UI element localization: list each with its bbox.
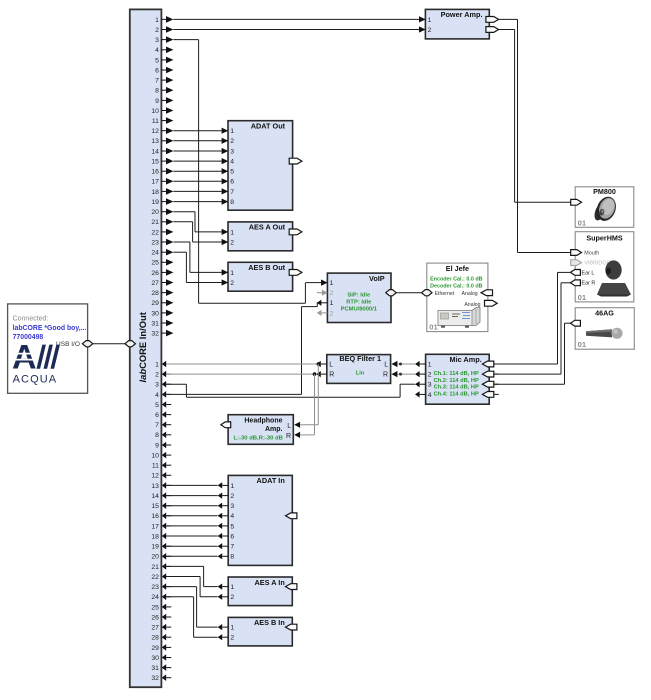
Mic Amp input connector 1 bbox=[482, 361, 498, 367]
wire ADAT In 2 to labCORE in14 bbox=[166, 495, 217, 497]
svg-text:31: 31 bbox=[151, 665, 159, 672]
svg-text:22: 22 bbox=[151, 574, 159, 581]
labCORE input port 29 bbox=[151, 644, 171, 652]
labCORE vertical label bbox=[137, 312, 148, 382]
device box El Jefe bbox=[427, 263, 488, 332]
svg-text:29: 29 bbox=[151, 300, 159, 307]
svg-text:01: 01 bbox=[429, 323, 438, 332]
svg-text:11: 11 bbox=[152, 463, 159, 470]
svg-text:3: 3 bbox=[155, 37, 159, 44]
svg-text:14: 14 bbox=[151, 148, 159, 155]
ADAT Out output connector bbox=[289, 158, 302, 164]
svg-text:SIP: Idle: SIP: Idle bbox=[347, 292, 371, 298]
El Jefe Analog input port bbox=[462, 290, 493, 297]
labCORE output port 7 bbox=[155, 77, 173, 85]
junction BEQ L tap bbox=[317, 362, 321, 366]
BEQ Filter 1 title bbox=[339, 354, 381, 363]
AES B In input connector bbox=[286, 624, 297, 630]
block BEQ Filter 1 bbox=[327, 355, 391, 384]
svg-text:Ch.2: 114 dB, HP: Ch.2: 114 dB, HP bbox=[434, 378, 479, 384]
BEQ output port R bbox=[316, 371, 334, 379]
svg-text:RTP: Idle: RTP: Idle bbox=[346, 299, 372, 305]
svg-text:L: L bbox=[287, 423, 291, 430]
wire VoIP out1 to labCORE in4 bbox=[166, 303, 317, 395]
labCORE output port 25 bbox=[151, 259, 173, 267]
svg-text:46AG: 46AG bbox=[595, 309, 614, 318]
SuperHMS unit number 01 bbox=[578, 293, 587, 302]
svg-text:6: 6 bbox=[230, 533, 234, 540]
labCORE input port 15 bbox=[151, 502, 171, 510]
svg-text:01: 01 bbox=[578, 293, 587, 302]
svg-text:VoIP: VoIP bbox=[369, 274, 385, 283]
svg-text:25: 25 bbox=[151, 604, 159, 611]
El Jefe device image bbox=[438, 308, 480, 328]
device box SuperHMS bbox=[575, 232, 634, 302]
wire labCORE out19 to ADAT Out 8 bbox=[173, 201, 221, 203]
labCORE input port 24 bbox=[151, 594, 171, 602]
wire labCORE out2 to Power Amp in2 bbox=[173, 29, 419, 31]
Headphone Amp output connector bbox=[221, 422, 231, 428]
wire labCORE out14 to ADAT Out 3 bbox=[173, 150, 221, 152]
block VoIP bbox=[327, 273, 391, 322]
svg-text:19: 19 bbox=[151, 199, 159, 206]
Mic Amp channel text 4 bbox=[434, 391, 479, 397]
block AES B In bbox=[228, 617, 292, 646]
labCORE input port 20 bbox=[151, 553, 171, 561]
svg-text:1: 1 bbox=[230, 128, 234, 135]
Mic Amp output port 3 bbox=[415, 381, 432, 389]
svg-text:1: 1 bbox=[230, 625, 234, 632]
wire labCORE out20 to AES A Out 1 bbox=[173, 212, 221, 232]
svg-text:El Jefe: El Jefe bbox=[446, 264, 469, 273]
svg-text:17: 17 bbox=[151, 179, 159, 186]
label Connected: bbox=[13, 316, 49, 323]
wire AES B In 2 to labCORE in24 bbox=[166, 597, 217, 637]
svg-text:labCORE *Good boy,...: labCORE *Good boy,... bbox=[13, 325, 87, 332]
svg-text:AES B In: AES B In bbox=[254, 618, 285, 627]
ADAT In output port 3 bbox=[218, 503, 235, 511]
ADAT In output port 4 bbox=[218, 513, 235, 521]
labCORE USB I/O connector bbox=[125, 341, 135, 347]
svg-text:7: 7 bbox=[155, 78, 159, 85]
AES A In title bbox=[255, 578, 285, 587]
labCORE input port 32 bbox=[151, 674, 171, 682]
svg-text:22: 22 bbox=[151, 229, 159, 236]
SuperHMS title bbox=[586, 233, 623, 242]
wire Power Amp out1 to SuperHMS Mouth bbox=[499, 19, 571, 252]
svg-text:PM800: PM800 bbox=[593, 187, 616, 196]
svg-text:Ch.3: 114 dB, HP: Ch.3: 114 dB, HP bbox=[434, 385, 479, 391]
svg-text:2: 2 bbox=[428, 372, 432, 379]
wire ADAT In 6 to labCORE in18 bbox=[166, 535, 217, 537]
El Jefe unit number 01 bbox=[429, 323, 438, 332]
svg-text:Ethernet: Ethernet bbox=[435, 291, 455, 297]
svg-text:2: 2 bbox=[230, 635, 234, 642]
AES B In title bbox=[254, 618, 285, 627]
VoIP input port 2 disabled bbox=[317, 290, 334, 298]
svg-text:6: 6 bbox=[155, 67, 159, 74]
labCORE input port 16 bbox=[151, 513, 171, 521]
labCORE input port 12 bbox=[151, 472, 171, 480]
Headphone Amp input R bbox=[286, 432, 300, 440]
labCORE output port 21 bbox=[151, 219, 173, 227]
label 77000498 bbox=[13, 334, 44, 341]
Power Amp output port 1 bbox=[486, 17, 499, 23]
svg-text:Lin: Lin bbox=[356, 370, 365, 376]
wire labCORE out18 to ADAT Out 7 bbox=[173, 190, 221, 192]
svg-text:2: 2 bbox=[230, 280, 234, 287]
svg-text:16: 16 bbox=[151, 169, 159, 176]
VoIP title bbox=[369, 274, 385, 283]
wire labCORE out21 to AES A Out 2 bbox=[173, 222, 221, 242]
svg-text:28: 28 bbox=[151, 635, 159, 642]
AES B Out output connector bbox=[289, 270, 302, 276]
ADAT In output port 2 bbox=[218, 493, 235, 501]
labCORE input port 22 bbox=[151, 573, 171, 581]
ADAT Out input port 7 bbox=[222, 188, 235, 196]
labCORE input port 25 bbox=[151, 604, 171, 612]
svg-text:ADAT Out: ADAT Out bbox=[251, 122, 286, 131]
svg-text:2: 2 bbox=[428, 27, 432, 34]
VoIP status text RTP bbox=[346, 299, 372, 305]
svg-text:16: 16 bbox=[151, 513, 159, 520]
ADAT Out input port 4 bbox=[222, 158, 235, 166]
labCORE output port 22 bbox=[151, 229, 173, 237]
svg-text:2: 2 bbox=[155, 27, 159, 34]
amplifier block Power Amp bbox=[425, 9, 489, 39]
wire ADAT In 3 to labCORE in15 bbox=[166, 505, 217, 507]
labCORE output port 11 bbox=[152, 117, 174, 125]
svg-text:01: 01 bbox=[578, 218, 587, 227]
labCORE input port 17 bbox=[151, 523, 171, 531]
El Jefe Ethernet connector bbox=[422, 290, 455, 297]
ADAT Out input port 8 bbox=[222, 199, 235, 207]
svg-text:14: 14 bbox=[151, 493, 159, 500]
ADAT Out input port 6 bbox=[222, 178, 235, 186]
46AG unit number 01 bbox=[578, 340, 587, 349]
svg-text:20: 20 bbox=[151, 554, 159, 561]
ADAT In output port 1 bbox=[218, 482, 235, 490]
El Jefe encoder cal text bbox=[430, 276, 483, 282]
labCORE output port 14 bbox=[151, 148, 173, 156]
svg-text:Decoder Cal.: 0.0 dB: Decoder Cal.: 0.0 dB bbox=[430, 283, 483, 289]
VoIP Ethernet connector bbox=[386, 290, 396, 296]
labCORE output port 4 bbox=[155, 47, 173, 55]
wire labCORE out12 to ADAT Out 1 bbox=[173, 130, 221, 132]
Headphone Amp gain text bbox=[233, 435, 282, 441]
labCORE input port 6 bbox=[155, 411, 171, 419]
svg-text:ACQUA: ACQUA bbox=[13, 373, 58, 385]
wire AES A In 2 to labCORE in22 bbox=[166, 577, 217, 597]
svg-text:10: 10 bbox=[151, 108, 159, 115]
Mic Amp output port 1 bbox=[415, 361, 432, 369]
Mic Amp input connector 3 bbox=[482, 381, 498, 387]
labCORE input port 1 bbox=[155, 361, 171, 369]
svg-text:Ch.1: 114 dB, HP: Ch.1: 114 dB, HP bbox=[434, 371, 479, 377]
svg-text:AES A Out: AES A Out bbox=[249, 223, 286, 232]
labCORE input port 26 bbox=[151, 614, 171, 622]
El Jefe decoder cal text bbox=[430, 283, 483, 289]
svg-text:9: 9 bbox=[155, 98, 159, 105]
svg-text:1: 1 bbox=[428, 17, 432, 24]
SuperHMS Mouth input port bbox=[571, 250, 600, 257]
ADAT Out input port 1 bbox=[222, 128, 235, 136]
wire 46AG to Mic Amp in3 bbox=[494, 323, 570, 384]
svg-text:R: R bbox=[286, 433, 291, 440]
labCORE output port 30 bbox=[151, 310, 173, 318]
labCORE output port 29 bbox=[151, 300, 173, 308]
svg-text:2: 2 bbox=[330, 310, 334, 317]
46AG output port bbox=[570, 320, 580, 326]
svg-text:21: 21 bbox=[151, 564, 159, 571]
labCORE output port 10 bbox=[151, 107, 173, 115]
SuperHMS Ear R output port bbox=[570, 280, 595, 287]
svg-text:5: 5 bbox=[230, 169, 234, 176]
svg-text:23: 23 bbox=[151, 584, 159, 591]
Mic Amp input connector 4 bbox=[482, 392, 498, 398]
svg-text:8: 8 bbox=[155, 432, 159, 439]
labCORE input port 31 bbox=[151, 664, 171, 672]
svg-text:27: 27 bbox=[151, 625, 159, 632]
svg-text:5: 5 bbox=[155, 402, 159, 409]
svg-text:7: 7 bbox=[230, 544, 234, 551]
svg-text:11: 11 bbox=[152, 118, 159, 125]
labCORE output port 32 bbox=[151, 330, 173, 338]
46AG microphone image bbox=[586, 328, 623, 339]
svg-text:4: 4 bbox=[155, 47, 159, 54]
wire labCORE out15 to ADAT Out 4 bbox=[173, 160, 221, 162]
labCORE output port 31 bbox=[151, 320, 173, 328]
wire labCORE out16 to ADAT Out 5 bbox=[173, 170, 221, 172]
Mic Amp title bbox=[450, 355, 482, 364]
wire USB I/O to labCORE bbox=[93, 343, 125, 345]
AES A Out input port 2 bbox=[222, 239, 235, 247]
block ADAT Out bbox=[228, 121, 293, 211]
wire labCORE out17 to ADAT Out 6 bbox=[173, 180, 221, 182]
BEQ input port R bbox=[383, 371, 397, 379]
SuperHMS Ear L output port bbox=[570, 270, 594, 277]
wire Power Amp out2 to PM800 bbox=[499, 30, 571, 203]
labCORE output port 28 bbox=[151, 289, 173, 297]
svg-text:3: 3 bbox=[230, 148, 234, 155]
ADAT Out input port 2 bbox=[222, 138, 235, 146]
svg-text:1: 1 bbox=[428, 361, 432, 368]
svg-text:8: 8 bbox=[230, 554, 234, 561]
svg-text:PCMU/8000/1: PCMU/8000/1 bbox=[341, 306, 378, 312]
wire labCORE out24 to AES B Out 2 bbox=[173, 252, 221, 282]
svg-text:10: 10 bbox=[151, 453, 159, 460]
labCORE input port 13 bbox=[151, 482, 171, 490]
VoIP output port 1 bbox=[317, 300, 334, 308]
VoIP status text PCMU bbox=[341, 306, 378, 312]
svg-text:Encoder Cal.: 0.0 dB: Encoder Cal.: 0.0 dB bbox=[430, 276, 483, 282]
block Mic Amp bbox=[426, 354, 490, 404]
svg-text:4: 4 bbox=[230, 513, 234, 520]
svg-text:12: 12 bbox=[151, 128, 159, 135]
labCORE output port 12 bbox=[151, 127, 173, 135]
svg-text:4: 4 bbox=[428, 392, 432, 399]
labCORE input port 10 bbox=[151, 452, 171, 460]
labCORE output port 20 bbox=[151, 208, 173, 216]
wire AES A In 1 to labCORE in21 bbox=[166, 566, 217, 586]
wire VoIP Ethernet to El Jefe Ethernet bbox=[396, 292, 421, 294]
ACQUA connection box frame bbox=[8, 304, 88, 393]
svg-text:32: 32 bbox=[151, 331, 159, 338]
wire labCORE out1 to Power Amp in1 bbox=[173, 18, 419, 20]
wire BEQ L to labCORE in1 bbox=[166, 363, 316, 365]
labCORE output port 1 bbox=[155, 16, 173, 24]
device box 46AG bbox=[575, 308, 634, 350]
svg-text:Connected:: Connected: bbox=[13, 316, 49, 323]
svg-text:SuperHMS: SuperHMS bbox=[586, 233, 623, 242]
labCORE input port 21 bbox=[151, 563, 171, 571]
svg-text:BEQ Filter 1: BEQ Filter 1 bbox=[339, 354, 381, 363]
Headphone Amp title bbox=[244, 418, 282, 433]
svg-text:3: 3 bbox=[428, 382, 432, 389]
svg-text:15: 15 bbox=[151, 503, 159, 510]
Headphone Amp input L bbox=[287, 422, 300, 430]
svg-text:2: 2 bbox=[230, 138, 234, 145]
labCORE input port 4 bbox=[155, 391, 171, 399]
wire SuperHMS Ear L to Mic Amp in1 bbox=[494, 272, 570, 364]
svg-text:8: 8 bbox=[155, 88, 159, 95]
svg-text:19: 19 bbox=[151, 544, 159, 551]
svg-text:ADAT In: ADAT In bbox=[257, 476, 285, 485]
AES B Out title bbox=[248, 263, 285, 272]
svg-text:1: 1 bbox=[155, 17, 159, 24]
svg-text:7: 7 bbox=[155, 422, 159, 429]
Mic Amp input connector 2 bbox=[482, 371, 498, 377]
ACQUA logo bbox=[12, 339, 60, 386]
label labCORE Good boy bbox=[13, 325, 87, 332]
svg-text:Headphone: Headphone bbox=[244, 418, 282, 425]
svg-text:2: 2 bbox=[230, 239, 234, 246]
ADAT In output port 7 bbox=[218, 543, 235, 551]
labCORE input port 23 bbox=[151, 583, 171, 591]
label USB I/O bbox=[56, 341, 80, 348]
labCORE output port 24 bbox=[151, 249, 173, 257]
svg-text:15: 15 bbox=[151, 159, 159, 166]
Mic Amp output port 2 bbox=[415, 371, 432, 379]
block AES A In bbox=[228, 577, 292, 606]
svg-text:R: R bbox=[329, 372, 334, 379]
block ADAT In bbox=[228, 475, 292, 565]
junction BEQ R tap bbox=[313, 372, 317, 376]
wire ADAT In 1 to labCORE in13 bbox=[166, 484, 217, 486]
svg-text:Amp.: Amp. bbox=[265, 426, 283, 433]
svg-text:3: 3 bbox=[230, 503, 234, 510]
El Jefe Analog output port bbox=[464, 300, 497, 307]
labCORE output port 23 bbox=[151, 239, 173, 247]
Mic Amp output port 4 bbox=[415, 391, 432, 399]
labCORE output port 2 bbox=[155, 26, 173, 34]
block AES B Out bbox=[228, 262, 293, 291]
labCORE output port 27 bbox=[151, 279, 173, 287]
VoIP status text SIP bbox=[347, 292, 371, 298]
svg-text:1: 1 bbox=[230, 584, 234, 591]
svg-text:1: 1 bbox=[330, 300, 334, 307]
wire labCORE out13 to ADAT Out 2 bbox=[173, 140, 221, 142]
labCORE output port 5 bbox=[155, 57, 173, 65]
Mic Amp channel text 3 bbox=[434, 385, 479, 391]
svg-text:13: 13 bbox=[151, 138, 159, 145]
ADAT Out title bbox=[251, 122, 286, 131]
wire Mic Amp out3 to labCORE in3 bbox=[166, 384, 415, 397]
svg-text:32: 32 bbox=[151, 675, 159, 682]
svg-text:1: 1 bbox=[230, 270, 234, 277]
svg-text:29: 29 bbox=[151, 645, 159, 652]
svg-text:13: 13 bbox=[151, 483, 159, 490]
wire ADAT In 5 to labCORE in17 bbox=[166, 525, 217, 527]
svg-text:26: 26 bbox=[151, 614, 159, 621]
Power Amp input port 2 bbox=[419, 26, 432, 34]
svg-text:18: 18 bbox=[151, 533, 159, 540]
Mic Amp channel text 1 bbox=[434, 371, 479, 377]
svg-text:labCORE In/Out: labCORE In/Out bbox=[137, 312, 148, 382]
PM800 loudspeaker image bbox=[592, 194, 619, 224]
svg-text:Analog: Analog bbox=[462, 291, 478, 297]
ADAT In input connector bbox=[286, 513, 297, 519]
labCORE output port 15 bbox=[151, 158, 173, 166]
svg-text:USB I/O: USB I/O bbox=[56, 341, 80, 348]
wire ADAT In 4 to labCORE in16 bbox=[166, 515, 217, 517]
Power Amp output port 2 bbox=[486, 27, 499, 33]
AES A In output port 2 bbox=[218, 594, 235, 602]
SuperHMS HATS image bbox=[597, 260, 631, 296]
svg-text:3: 3 bbox=[155, 382, 159, 389]
labCORE output port 8 bbox=[155, 87, 173, 95]
labCORE input port 14 bbox=[151, 492, 171, 500]
svg-text:12: 12 bbox=[151, 473, 159, 480]
labCORE output port 6 bbox=[155, 67, 173, 75]
svg-text:30: 30 bbox=[151, 655, 159, 662]
wire Mic Amp out2 to BEQ R bbox=[397, 373, 415, 376]
labCORE output port 18 bbox=[151, 188, 173, 196]
svg-text:24: 24 bbox=[151, 250, 159, 257]
PM800 unit number 01 bbox=[578, 218, 587, 227]
labCORE input port 30 bbox=[151, 654, 171, 662]
svg-text:Ear L: Ear L bbox=[582, 270, 595, 276]
svg-text:01: 01 bbox=[578, 340, 587, 349]
svg-text:R: R bbox=[383, 372, 388, 379]
labCORE input port 28 bbox=[151, 634, 171, 642]
labCORE input port 19 bbox=[151, 543, 171, 551]
svg-text:2: 2 bbox=[230, 493, 234, 500]
AES A Out title bbox=[249, 223, 286, 232]
svg-text:24: 24 bbox=[151, 594, 159, 601]
VoIP input port 1 bbox=[321, 280, 334, 288]
svg-text:26: 26 bbox=[151, 270, 159, 277]
svg-text:Ch.4: 114 dB, HP: Ch.4: 114 dB, HP bbox=[434, 391, 479, 397]
svg-text:4: 4 bbox=[155, 392, 159, 399]
svg-text:27: 27 bbox=[151, 280, 159, 287]
wire Mic Amp out1 to BEQ L bbox=[397, 363, 415, 366]
svg-text:7: 7 bbox=[230, 189, 234, 196]
labCORE input port 18 bbox=[151, 533, 171, 541]
svg-text:17: 17 bbox=[151, 523, 159, 530]
svg-text:1: 1 bbox=[230, 229, 234, 236]
AES A Out output connector bbox=[289, 229, 302, 235]
svg-text:5: 5 bbox=[155, 57, 159, 64]
svg-text:8: 8 bbox=[230, 199, 234, 206]
svg-text:1: 1 bbox=[230, 483, 234, 490]
labCORE output port 17 bbox=[151, 178, 173, 186]
labCORE input port 27 bbox=[151, 624, 171, 632]
svg-text:1: 1 bbox=[155, 361, 159, 368]
svg-text:Analog: Analog bbox=[464, 302, 480, 308]
svg-text:23: 23 bbox=[151, 239, 159, 246]
ADAT Out input port 5 bbox=[222, 168, 235, 176]
